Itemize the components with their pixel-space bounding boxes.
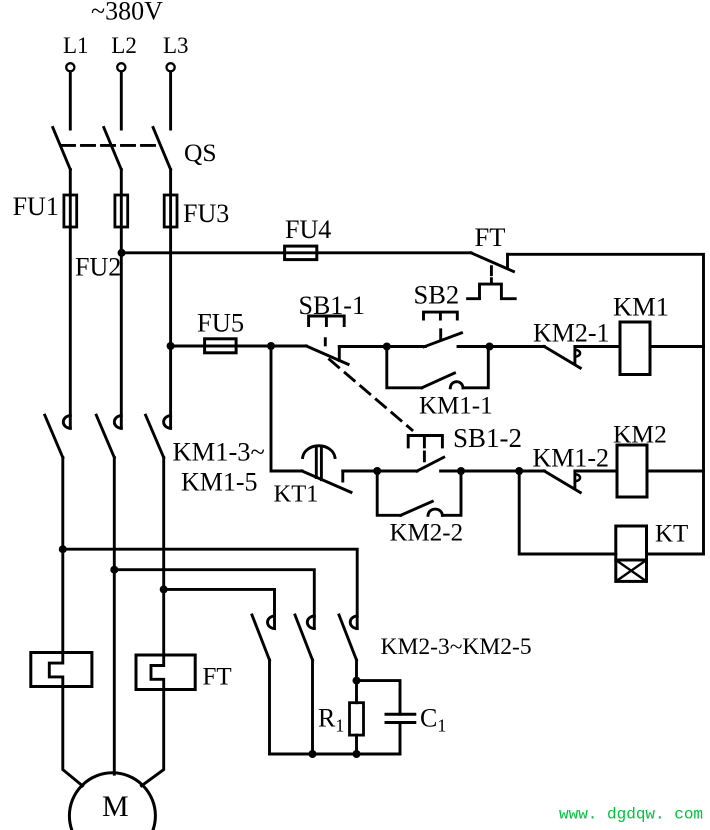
svg-text:FU1: FU1 xyxy=(13,192,59,221)
svg-text:SB1-2: SB1-2 xyxy=(453,423,522,453)
svg-text:SB2: SB2 xyxy=(414,280,460,310)
svg-text:FT: FT xyxy=(203,664,232,691)
svg-text:KM1-2: KM1-2 xyxy=(533,444,610,473)
svg-text:L3: L3 xyxy=(163,33,189,58)
svg-text:FU5: FU5 xyxy=(197,308,244,338)
svg-text:L2: L2 xyxy=(111,33,137,58)
svg-text:KT1: KT1 xyxy=(274,481,319,508)
svg-text:KM1-1: KM1-1 xyxy=(419,393,493,420)
svg-text:KM2: KM2 xyxy=(613,420,667,449)
svg-text:www. dgdqw. com: www. dgdqw. com xyxy=(559,806,703,824)
svg-text:QS: QS xyxy=(184,138,217,167)
svg-text:KM1-3~: KM1-3~ xyxy=(173,437,265,467)
svg-text:L1: L1 xyxy=(63,33,89,58)
svg-text:M: M xyxy=(102,790,129,823)
svg-text:KM1: KM1 xyxy=(613,292,669,322)
svg-text:FU3: FU3 xyxy=(183,199,229,228)
svg-text:KT: KT xyxy=(655,521,688,548)
svg-text:~380V: ~380V xyxy=(91,0,163,26)
svg-text:FU2: FU2 xyxy=(75,253,121,282)
svg-text:KM2-1: KM2-1 xyxy=(533,319,610,348)
svg-text:R1: R1 xyxy=(318,704,344,736)
svg-text:KM1-5: KM1-5 xyxy=(181,468,258,497)
svg-text:C1: C1 xyxy=(420,704,446,736)
svg-text:KM2-3~KM2-5: KM2-3~KM2-5 xyxy=(381,634,532,660)
svg-text:FT: FT xyxy=(475,222,506,252)
svg-text:FU4: FU4 xyxy=(285,215,331,244)
svg-text:SB1-1: SB1-1 xyxy=(299,291,365,320)
svg-text:KM2-2: KM2-2 xyxy=(390,520,464,547)
